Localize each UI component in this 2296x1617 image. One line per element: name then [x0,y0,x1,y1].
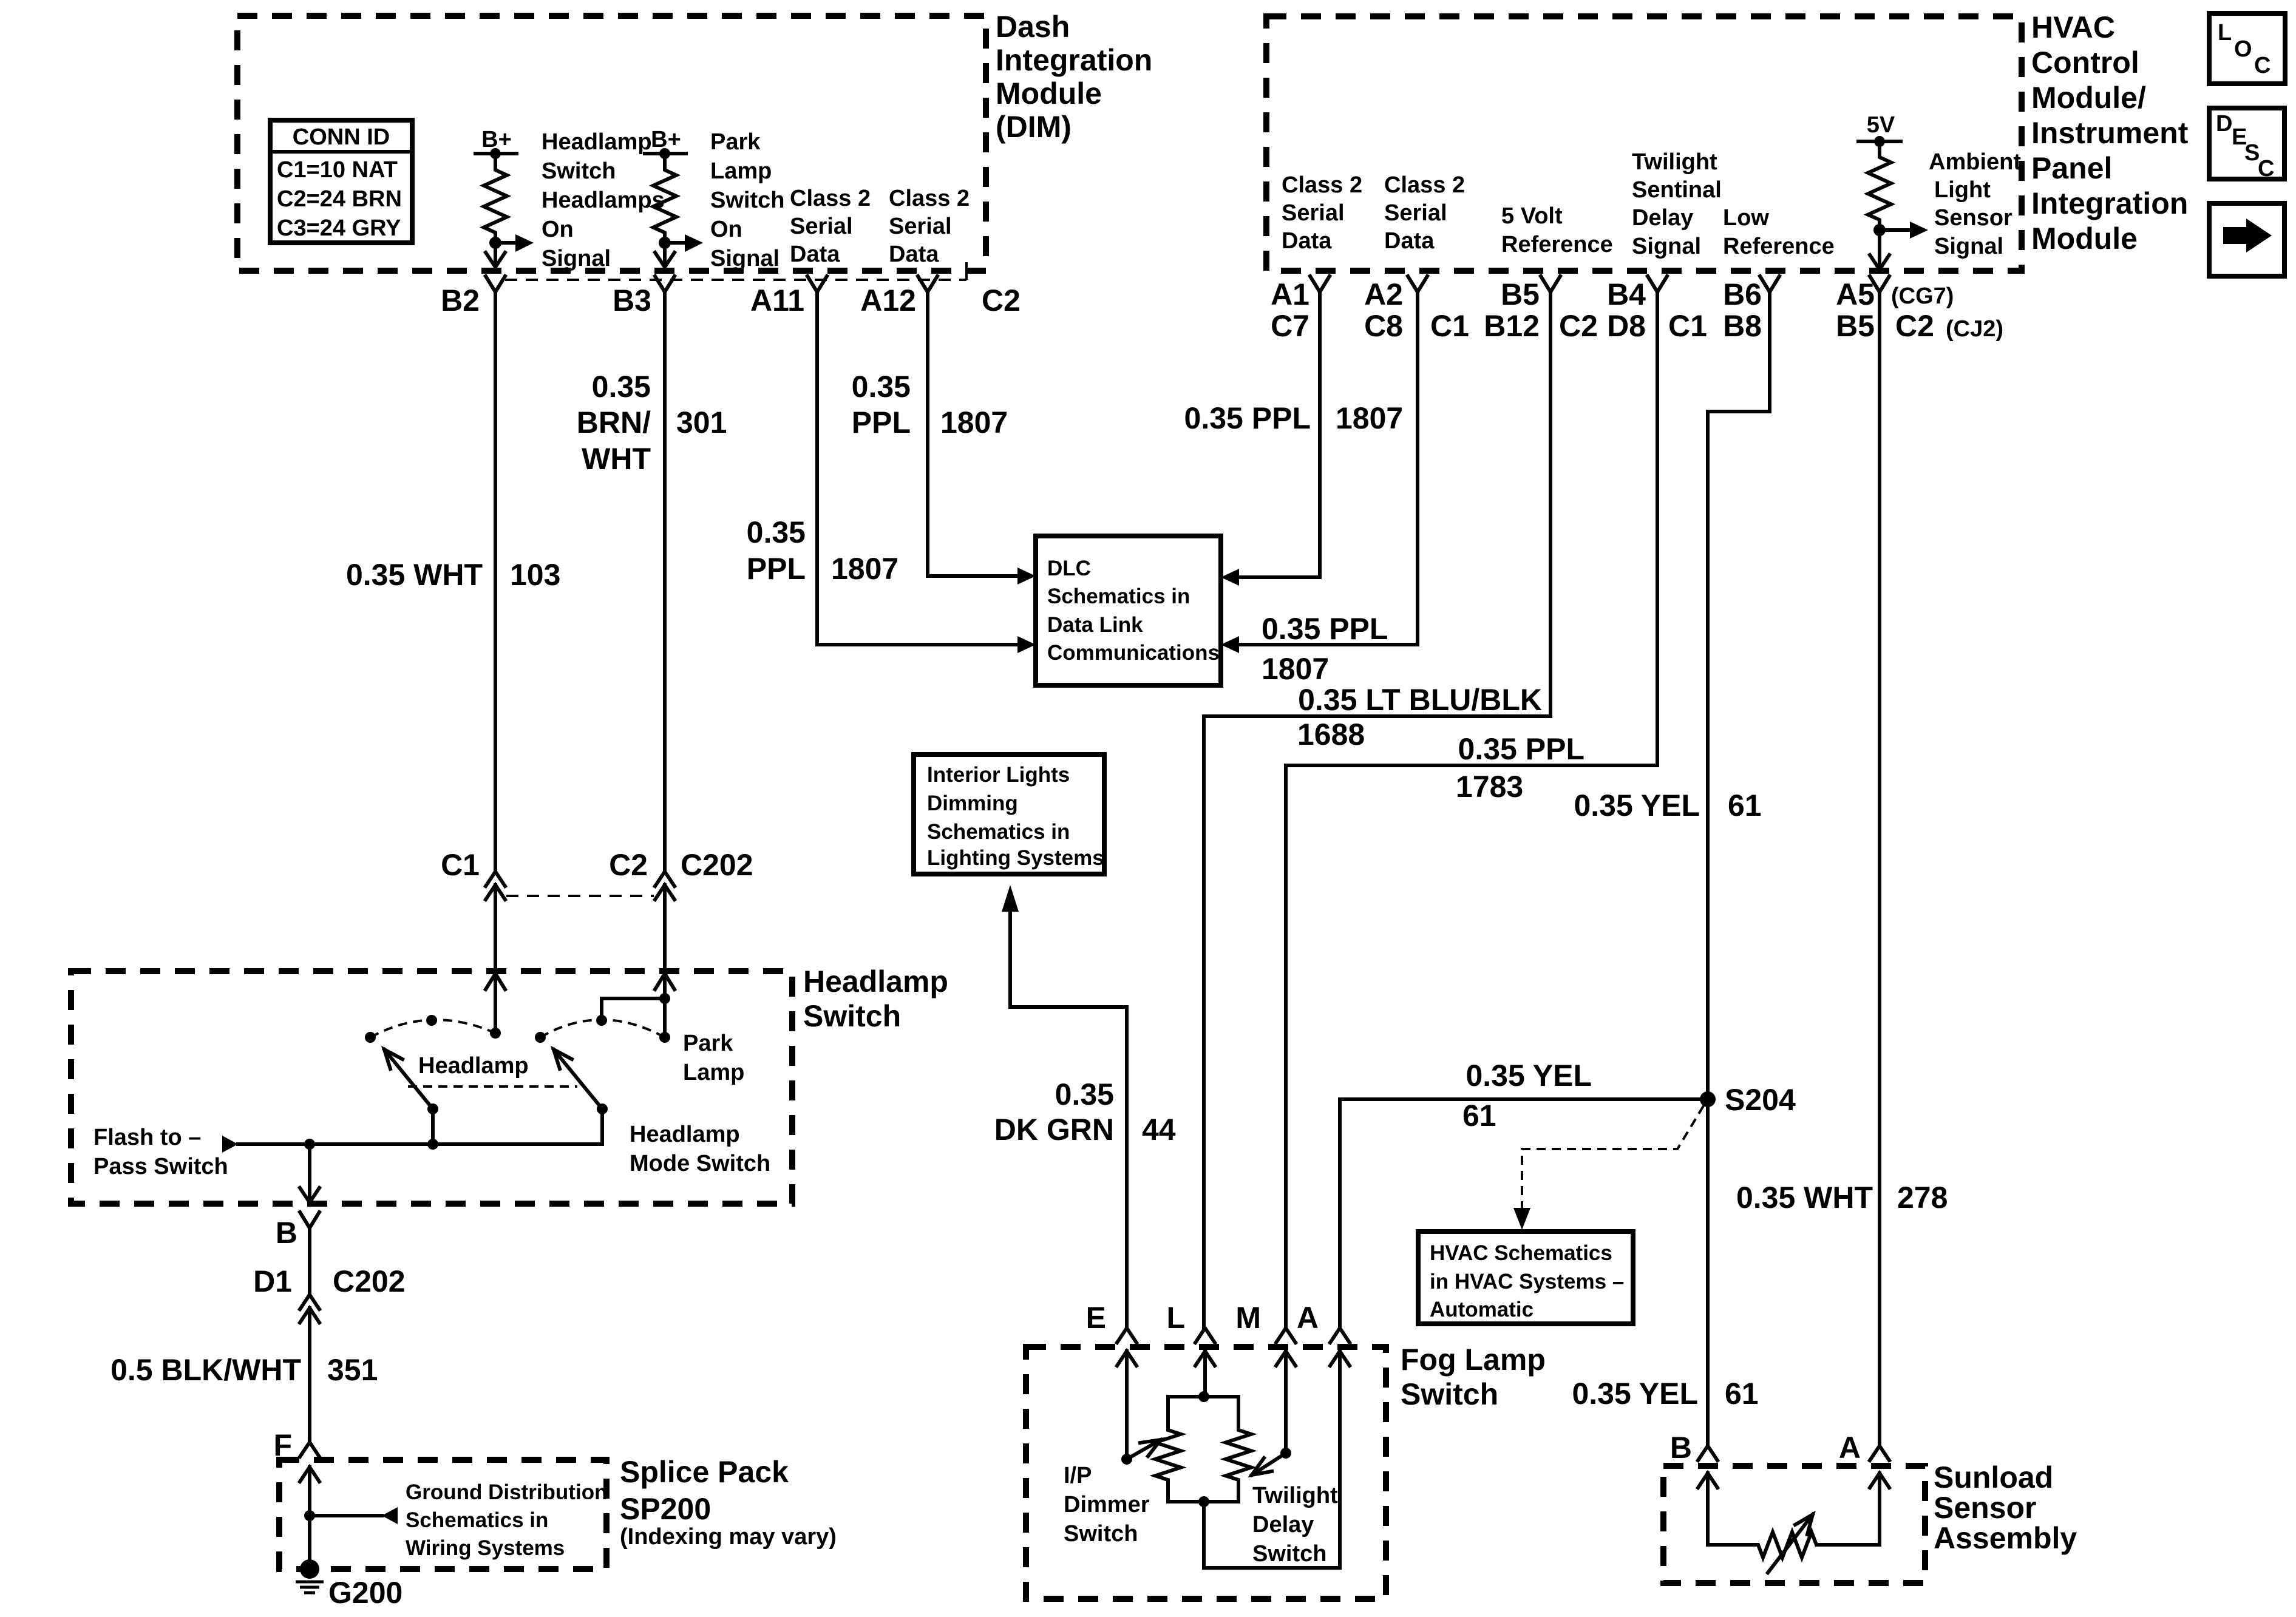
svg-text:Headlamps: Headlamps [542,188,665,213]
svg-text:Delay: Delay [1252,1512,1314,1537]
svg-text:C1: C1 [441,848,480,882]
svg-text:Park: Park [683,1031,733,1056]
dashed branch from S204 to HVAC schematics reference [1513,1106,1703,1230]
svg-text:Park: Park [710,129,761,155]
svg-text:Data: Data [889,242,939,267]
svg-text:5V: 5V [1867,112,1895,138]
label: Flash to - Pass Switch [93,1125,228,1179]
svg-text:On: On [710,217,742,242]
in-line connector C202 on B3 wire (double chevron) [655,872,674,900]
junction node on B3 output [659,237,671,249]
svg-text:0.35 YEL: 0.35 YEL [1466,1059,1592,1093]
svg-text:Switch: Switch [542,158,616,184]
pin label D1 / connector C202 [253,1264,405,1298]
svg-text:1783: 1783 [1456,770,1523,804]
resistor: park lamp switch on signal pull-up [653,154,676,243]
svg-text:A2: A2 [1364,277,1403,311]
svg-text:C7: C7 [1271,309,1309,343]
reference box: HVAC Schematics in HVAC Systems - Automatic [1418,1232,1633,1324]
label: Park Lamp Switch On Signal [710,129,784,271]
reference box: arrow (continuation) [2209,203,2284,276]
svg-text:Instrument: Instrument [2031,116,2189,150]
label: 0.35 YEL | 61 (upper) [1574,788,1761,822]
pin label A5/B5 with connectors (CG7)/C2 (CJ2) [1836,277,2003,343]
svg-text:5 Volt: 5 Volt [1501,203,1563,229]
svg-text:61: 61 [1728,788,1762,822]
pin label B3 [613,283,651,317]
svg-text:C202: C202 [333,1264,406,1298]
svg-text:278: 278 [1897,1181,1948,1215]
svg-text:Communications: Communications [1047,641,1220,665]
svg-text:351: 351 [327,1353,378,1387]
svg-text:Headlamp: Headlamp [418,1053,529,1079]
label: 5 Volt Reference [1501,203,1613,257]
signal branch arrow (Headlamps On Signal) [495,234,534,252]
svg-text:Integration: Integration [996,43,1152,77]
label: Dash Integration Module (DIM) title [996,10,1152,144]
connector chevron inside splice pack [300,1467,319,1482]
svg-text:L: L [1166,1301,1185,1335]
label: Headlamp [418,1053,529,1079]
svg-text:Schematics in: Schematics in [1047,585,1190,608]
wire: B2 output inside DIM with down arrowhead [486,243,505,267]
power 5V (ambient light sensor pull-up) [1858,112,1901,147]
svg-text:G200: G200 [328,1576,402,1610]
svg-text:Mode Switch: Mode Switch [630,1151,770,1176]
svg-text:DLC: DLC [1047,557,1091,580]
svg-text:Panel: Panel [2031,151,2112,185]
svg-text:S204: S204 [1725,1083,1796,1117]
wire: B5 5 volt reference to fog lamp switch pin L (0.35 LT BLU/BLK 1688) [1204,292,1550,1328]
svg-text:Headlamp: Headlamp [803,964,948,998]
svg-text:Pass Switch: Pass Switch [93,1154,228,1179]
svg-text:Lighting Systems: Lighting Systems [927,846,1104,870]
pin label L [1166,1301,1185,1335]
svg-text:1807: 1807 [940,405,1008,439]
svg-text:0.35 WHT: 0.35 WHT [346,558,483,592]
svg-text:Switch: Switch [1064,1521,1138,1547]
connector chevron above fog lamp switch pin E [1117,1328,1136,1343]
junction node on B2 output [489,237,501,249]
svg-text:SP200: SP200 [620,1492,711,1526]
module box: HVAC Control Module / Instrument Panel Integration Module [1266,16,2022,271]
svg-text:I/P: I/P [1064,1463,1092,1488]
wire: A5 ambient light sensor signal to sunload sensor A (0.35 WHT 278) [1878,292,1881,1446]
pin label B [276,1216,297,1250]
svg-text:Headlamp: Headlamp [630,1122,740,1147]
svg-text:C1=10 NAT: C1=10 NAT [277,157,398,183]
svg-text:D8: D8 [1607,309,1646,343]
svg-text:Lamp: Lamp [683,1060,744,1085]
park lamp switch: movable arm with arrowhead [554,1049,608,1144]
reference box: DESC [2209,108,2284,181]
wire: B3 output inside DIM with down arrowhead [655,243,674,267]
svg-text:Integration: Integration [2031,186,2188,220]
wire: pin E to dimmer wiper [1125,1351,1129,1459]
svg-text:Class 2: Class 2 [889,186,970,211]
connector pin chevron B3 [655,276,674,292]
pin label A2/C8 and C1 [1364,277,1469,343]
svg-text:Sensor: Sensor [1934,1491,2037,1525]
svg-text:Class 2: Class 2 [1282,172,1362,198]
svg-text:Twilight: Twilight [1252,1483,1338,1508]
svg-text:0.35: 0.35 [747,515,806,549]
wire: fog lamp switch pin A to splice S204 (0.35 YEL 61) [1340,1099,1708,1328]
svg-text:B: B [276,1216,297,1250]
splice junction with reference arrow to ground distribution [304,1507,398,1524]
svg-text:On: On [542,217,574,242]
svg-text:Serial: Serial [790,214,853,239]
connector pin chevron A5/B5 [1870,276,1889,292]
pin label M [1235,1301,1261,1335]
connector pin chevron A1/C7 [1310,276,1330,292]
label: I/P Dimmer Switch [1064,1463,1150,1547]
ground G200 [296,1559,402,1610]
module box: Fog Lamp Switch [1026,1347,1386,1599]
signal branch arrow (Park Lamp On Signal) [665,234,703,252]
resistor: I/P dimmer switch (left branch) [1155,1397,1204,1502]
svg-text:Class 2: Class 2 [1384,172,1465,198]
svg-text:Class 2: Class 2 [790,186,871,211]
connector chevron above fog lamp switch pin A [1330,1328,1350,1343]
pin label A12 [860,283,916,317]
wire: A11 class 2 serial data to DLC (0.35 PPL 1807) [817,292,1036,653]
svg-text:Light: Light [1934,177,1991,203]
svg-text:0.35 PPL: 0.35 PPL [1184,401,1311,435]
svg-text:0.5 BLK/WHT: 0.5 BLK/WHT [110,1353,301,1387]
svg-text:Schematics in: Schematics in [927,820,1070,844]
module box: Headlamp Switch [71,971,792,1204]
svg-text:B2: B2 [441,283,480,317]
svg-text:B3: B3 [613,283,651,317]
svg-text:Low: Low [1723,205,1769,231]
reference arrow from flash to pass switch [222,1136,238,1153]
svg-text:Module: Module [2031,222,2138,256]
label: Park Lamp [683,1031,744,1085]
wire: A12/C2 class 2 serial data to DLC (0.35 PPL 1807) [928,292,1036,585]
pin label B6/B8 [1723,277,1762,343]
connector chevron inside fog lamp switch pin M [1276,1351,1296,1366]
label: Splice Pack SP200 (Indexing may vary) [620,1455,837,1550]
label: 0.35 WHT | 103 [346,558,561,592]
label: 0.35 PPL | 1807 (C2 wire) [852,370,1008,439]
label: Class 2 Serial Data (A1/C7) [1282,172,1362,254]
connector chevron inside fog lamp switch pin L [1195,1351,1215,1366]
table: CONN ID (C1=10 NAT, C2=24 BRN, C3=24 GRY) [270,120,412,243]
wire: C2 connector into headlamp switch [663,885,667,998]
pin label A11 [750,283,804,317]
label: 0.35 BRN/WHT | 301 [577,370,727,476]
connector chevron inside box on B3 wire [655,974,674,989]
connector chevron above splice pack [300,1442,319,1457]
power B+ (headlamp switch pull-up) [475,127,517,159]
svg-text:(DIM): (DIM) [996,110,1072,144]
pin label B5/B12 and C2 [1484,277,1598,343]
svg-text:Dimming: Dimming [927,792,1018,815]
I/P dimmer wiper arrow [1121,1440,1161,1465]
svg-text:O: O [2234,36,2252,62]
svg-text:Signal: Signal [1632,234,1701,259]
in-line connector C202 on B2 wire (double chevron) [486,872,505,900]
label: Ambient Light Sensor Signal [1929,149,2021,259]
svg-text:Wiring Systems: Wiring Systems [406,1536,565,1560]
svg-text:Signal: Signal [1934,234,2003,259]
svg-text:(CG7): (CG7) [1891,283,1954,309]
svg-text:Fog Lamp: Fog Lamp [1401,1343,1546,1377]
svg-text:Automatic: Automatic [1430,1298,1533,1321]
connector chevron inside sunload pin A [1870,1473,1889,1488]
variable resistor arrow across sunload sensor [1768,1514,1813,1573]
label: HVAC Control Module/Instrument Panel Integration Module title [2031,10,2189,256]
svg-text:Dimmer: Dimmer [1064,1492,1150,1517]
headlamp mode switch: movable arm with arrowhead [384,1049,438,1144]
svg-text:(CJ2): (CJ2) [1946,316,2003,342]
svg-text:Headlamp: Headlamp [542,129,652,155]
connector chevron inside fog lamp switch pin E [1117,1351,1136,1366]
svg-text:Delay: Delay [1632,205,1693,231]
wire: A2/C8 class 2 serial data to DLC (0.35 PPL 1807) [1221,292,1418,653]
label: 0.35 DK GRN | 44 [994,1077,1176,1147]
svg-text:0.35 WHT: 0.35 WHT [1736,1181,1873,1215]
wire: A1/C7 class 2 serial data to DLC (0.35 PPL 1807) [1221,292,1320,586]
connector pin chevron B4/D8 [1648,276,1667,292]
svg-text:1807: 1807 [831,552,898,586]
svg-text:A11: A11 [750,283,804,317]
svg-text:D1: D1 [253,1264,292,1298]
svg-text:C2=24 BRN: C2=24 BRN [277,186,402,212]
module box: Splice Pack SP200 [279,1460,606,1569]
svg-text:E: E [1086,1301,1106,1335]
pin label B2 [441,283,480,317]
wire: fog lamp switch pin E to interior lights dimming (0.35 DK GRN 44) with up arrow [1002,885,1127,1328]
connector pin chevron B below headlamp switch [300,1212,319,1228]
svg-text:Switch: Switch [1252,1541,1326,1567]
label: 0.35 PPL | 1807 (A1 wire) [1184,401,1404,435]
svg-text:Data: Data [1282,228,1332,254]
svg-text:B4: B4 [1607,277,1646,311]
svg-text:Ground Distribution: Ground Distribution [406,1480,607,1504]
svg-text:WHT: WHT [582,442,651,476]
svg-text:Dash: Dash [996,10,1070,44]
svg-text:44: 44 [1142,1113,1176,1147]
svg-text:A5: A5 [1836,277,1875,311]
wire: pin L to resistor top node [1198,1351,1209,1402]
svg-text:Ambient: Ambient [1929,149,2021,175]
label: 0.35 PPL | 1807 (A11 wire) [747,515,899,586]
pin label E [1086,1301,1106,1335]
label: 0.35 WHT | 278 [1736,1181,1948,1215]
svg-text:C: C [2254,53,2271,78]
label: 0.35 PPL / 1807 (A2 wire) [1262,612,1388,686]
svg-text:L: L [2218,20,2232,46]
svg-text:Schematics in: Schematics in [406,1508,548,1532]
svg-text:61: 61 [1462,1099,1496,1133]
svg-text:Signal: Signal [542,246,611,271]
pin label A1/C7 [1271,277,1309,343]
connector line under DIM (dashed with hook) [505,262,966,280]
wire: resistor bottom to pin A [1204,1351,1340,1568]
svg-text:B8: B8 [1723,309,1762,343]
svg-text:Serial: Serial [1384,200,1447,226]
pin label A [1297,1301,1319,1335]
svg-text:Assembly: Assembly [1934,1521,2077,1555]
connector chevron above fog lamp switch pin M [1276,1328,1296,1343]
svg-text:Reference: Reference [1501,232,1613,257]
svg-text:D: D [2216,111,2232,137]
park lamp switch: junction from C2 wire [602,993,670,1020]
svg-text:M: M [1235,1301,1261,1335]
reference box: Interior Lights Dimming Schematics in Lighting Systems [914,754,1104,874]
label: Headlamp Switch title [803,964,948,1033]
svg-text:C3=24 GRY: C3=24 GRY [277,215,401,241]
svg-text:0.35: 0.35 [852,370,911,404]
resistor: sunload sensor photo resistor [1708,1473,1880,1558]
splice S204 [1700,1083,1796,1117]
reference box: LOC [2209,13,2285,84]
svg-text:C2: C2 [982,283,1021,317]
headlamp mode switch: contact node (headlamp position) [490,1028,501,1039]
label: Sunload Sensor Assembly title [1934,1460,2077,1555]
svg-text:C8: C8 [1364,309,1403,343]
label: Twilight Sentinal Delay Signal [1632,149,1722,259]
resistor: headlamp switch headlamps on signal pull-up [484,154,507,243]
connector chevron above sunload pin A [1870,1446,1889,1460]
label: Class 2 Serial Data (A2/C8) [1384,172,1465,254]
svg-text:0.35 YEL: 0.35 YEL [1572,1377,1698,1411]
label: Class 2 Serial Data (A12) [889,186,970,267]
svg-text:Data: Data [790,242,840,267]
wire: splice pack internal ground wire [308,1467,311,1569]
label: 0.35 PPL / 1783 [1456,732,1584,804]
svg-text:C2: C2 [1559,309,1598,343]
svg-text:1688: 1688 [1297,717,1365,751]
svg-text:DK GRN: DK GRN [994,1113,1114,1147]
pin label B4/D8 and C1 [1607,277,1707,343]
connector pin chevron B5/B12 [1541,276,1560,292]
svg-text:Serial: Serial [1282,200,1345,226]
connector chevron above sunload pin B [1698,1446,1717,1460]
label: Class 2 Serial Data (A11) [790,186,871,267]
connector pin chevron B6/B8 [1760,276,1779,292]
svg-text:Twilight: Twilight [1632,149,1717,175]
label: 0.35 YEL / 61 (S204 wire) [1462,1059,1592,1133]
svg-text:61: 61 [1725,1377,1759,1411]
connector chevron inside box on B2 wire [486,974,505,989]
svg-text:C1: C1 [1430,309,1469,343]
svg-text:in HVAC Systems –: in HVAC Systems – [1430,1270,1624,1293]
label: Twilight Delay Switch [1252,1483,1338,1567]
wire: B4 twilight sentinal delay signal to fog lamp switch pin M (0.35 PPL 1783) [1286,292,1657,1328]
pin label C2 / C202 [609,848,753,882]
svg-text:C2: C2 [609,848,648,882]
bottom node of parallel resistors [1168,1496,1238,1507]
svg-text:Lamp: Lamp [710,158,772,184]
wire: 0.5 BLK/WHT 351 ground wire [308,1308,311,1443]
svg-text:0.35 PPL: 0.35 PPL [1262,612,1388,646]
connector pin chevron A2/C8 [1408,276,1427,292]
wire: headlamp switch B down to C202 [308,1228,311,1295]
svg-text:Reference: Reference [1723,234,1835,259]
svg-text:HVAC Schematics: HVAC Schematics [1430,1241,1612,1265]
svg-text:PPL: PPL [747,552,806,586]
svg-text:CONN ID: CONN ID [293,124,390,150]
pin label C2 [982,283,1021,317]
connector chevron inside fog lamp switch pin A [1330,1351,1350,1366]
svg-text:1807: 1807 [1262,652,1329,686]
park lamp switch: position arc (dashed) with dots [535,998,670,1043]
svg-text:1807: 1807 [1336,401,1403,435]
wire: B3 to headlamp switch (0.35 BRN/WHT 301) [663,292,667,872]
svg-text:301: 301 [676,405,727,439]
svg-text:0.35: 0.35 [1055,1077,1114,1111]
pin label F [273,1428,292,1462]
wire: A5 output inside module with down arrowhead [1870,230,1889,269]
svg-text:Serial: Serial [889,214,952,239]
label: Headlamp Mode Switch [630,1122,770,1176]
svg-text:Data: Data [1384,228,1435,254]
label: Headlamp Switch Headlamps On Signal [542,129,665,271]
svg-text:Switch: Switch [710,188,784,213]
in-line connector C202 on ground wire (double chevron) [300,1295,319,1323]
svg-text:Sentinal: Sentinal [1632,177,1722,203]
svg-text:PPL: PPL [852,405,911,439]
svg-text:0.35: 0.35 [592,370,651,404]
wire: B6 low reference down to sunload sensor B (0.35 YEL 61) [1708,292,1770,1446]
svg-text:Control: Control [2031,46,2139,80]
svg-text:B6: B6 [1723,277,1762,311]
headlamp mode switch: position arc (dashed) with position dots [365,1015,495,1043]
label: 0.5 BLK/WHT | 351 [110,1353,378,1387]
svg-text:0.35 LT BLU/BLK: 0.35 LT BLU/BLK [1298,683,1542,717]
svg-text:Flash to –: Flash to – [93,1125,201,1150]
pin label B (sunload) [1670,1431,1692,1465]
label: 0.35 YEL | 61 (lower, sunload B wire) [1572,1377,1758,1411]
label: Fog Lamp Switch title [1401,1343,1546,1411]
connector pin chevron A12 [918,276,937,292]
svg-text:Signal: Signal [710,246,779,271]
svg-text:Module/: Module/ [2031,81,2146,115]
svg-text:(Indexing may vary): (Indexing may vary) [620,1524,837,1550]
label: 0.35 LT BLU/BLK / 1688 [1297,683,1542,751]
svg-text:B: B [1670,1431,1692,1465]
label: Low Reference [1723,205,1835,259]
svg-text:A1: A1 [1271,277,1309,311]
module box: Dash Integration Module (DIM) [237,16,986,271]
pin label C1 (connector C202) [441,848,480,882]
svg-text:B5: B5 [1501,277,1540,311]
svg-text:Data Link: Data Link [1047,613,1143,637]
svg-text:C1: C1 [1668,309,1707,343]
svg-text:BRN/: BRN/ [577,405,651,439]
svg-text:Module: Module [996,76,1102,110]
svg-text:HVAC: HVAC [2031,10,2115,44]
svg-text:C: C [2258,156,2274,181]
wire: pin B drop inside headlamp switch with down arrowhead [300,1144,319,1202]
svg-text:A: A [1839,1431,1861,1465]
power B+ (park lamp pull-up) [645,127,686,159]
mechanical link between switch arms (dashed) [408,1085,577,1088]
svg-text:A12: A12 [860,283,916,317]
connector chevron above fog lamp switch pin L [1195,1328,1215,1343]
svg-text:0.35 YEL: 0.35 YEL [1574,788,1700,822]
connector pin chevron A11 [807,276,827,292]
pin label A (sunload) [1839,1431,1861,1465]
svg-text:Splice Pack: Splice Pack [620,1455,789,1489]
svg-text:Switch: Switch [803,999,901,1033]
svg-text:103: 103 [510,558,560,592]
svg-text:Switch: Switch [1401,1377,1498,1411]
connector chevron inside sunload pin B [1698,1473,1717,1488]
